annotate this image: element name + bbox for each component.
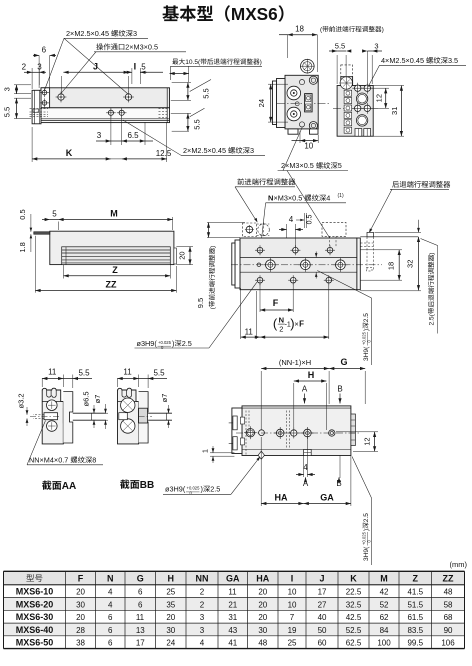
dim 5.5 and 3 top xyxy=(336,55,338,84)
arrows A B bottom xyxy=(303,479,309,488)
svg-text:1: 1 xyxy=(201,449,210,453)
svg-text:17: 17 xyxy=(318,588,327,597)
svg-text:M: M xyxy=(110,209,118,219)
svg-text:62.5: 62.5 xyxy=(346,639,362,648)
view A body right edge double line xyxy=(166,88,168,123)
dim 5.5 right upper xyxy=(172,82,191,84)
svg-text:12.5: 12.5 xyxy=(156,149,172,158)
svg-text:ø3H9(: ø3H9( xyxy=(137,339,158,348)
svg-text:35: 35 xyxy=(166,600,175,609)
view D mid hole row xyxy=(257,263,261,267)
svg-text:6: 6 xyxy=(108,626,113,635)
svg-text:21: 21 xyxy=(228,600,237,609)
view D front adjuster assembly dashed xyxy=(243,223,257,237)
view A bottom mount holes xyxy=(108,110,113,115)
svg-text:3: 3 xyxy=(250,146,254,155)
dim 2.5 rear adjuster xyxy=(375,231,422,233)
view E right rail stub xyxy=(351,414,356,446)
view D plate xyxy=(240,238,357,290)
svg-text:2.5(: 2.5( xyxy=(429,313,436,325)
dim Z xyxy=(63,265,65,279)
svg-text:MXS6-40: MXS6-40 xyxy=(16,625,54,635)
svg-text:4×M2.5×0.45: 4×M2.5×0.45 xyxy=(381,56,424,65)
dim 3 and 6.5 bottom xyxy=(110,116,112,145)
section BB body xyxy=(118,388,139,444)
arrows A B top xyxy=(302,385,308,394)
table header row xyxy=(26,574,42,582)
svg-text:ø7: ø7 xyxy=(160,394,169,403)
svg-text:8: 8 xyxy=(92,456,96,465)
svg-text:11: 11 xyxy=(136,613,145,622)
svg-text:11: 11 xyxy=(245,328,254,337)
rotated 3H9 label view E xyxy=(363,546,370,561)
view D left cap xyxy=(235,240,240,288)
svg-text:B: B xyxy=(337,385,342,394)
end view 1 feet xyxy=(288,129,298,134)
svg-text:99.5: 99.5 xyxy=(407,639,423,648)
dim F bottom xyxy=(259,284,261,312)
svg-text:20: 20 xyxy=(178,251,187,259)
section BB rail xyxy=(139,392,149,443)
dim 9.5 arrows xyxy=(207,222,245,224)
svg-text:NN: NN xyxy=(196,574,209,584)
svg-text:60: 60 xyxy=(318,639,327,648)
end view 2 body xyxy=(337,86,373,137)
svg-text:MXS6-10: MXS6-10 xyxy=(16,587,54,597)
dim 11 top BB xyxy=(117,378,119,387)
dim J xyxy=(63,71,128,73)
dim HA GA bottom xyxy=(260,437,262,506)
svg-text:20: 20 xyxy=(76,613,85,622)
svg-text:19: 19 xyxy=(288,626,297,635)
label with front adjuster xyxy=(320,26,384,34)
dim 3 left side xyxy=(14,84,31,86)
end view 2 bottom cutouts xyxy=(355,129,362,137)
dim 10 bottom xyxy=(299,131,301,143)
view C rod stub right xyxy=(174,248,177,264)
svg-text:Z: Z xyxy=(112,265,118,275)
dim 12 right view E xyxy=(336,431,378,433)
dim 0.5 top mid xyxy=(296,219,304,221)
label max 10.5 xyxy=(172,58,262,66)
svg-text:48: 48 xyxy=(444,588,453,597)
svg-text:(: ( xyxy=(273,316,278,331)
svg-text:4: 4 xyxy=(108,588,113,597)
svg-text:2: 2 xyxy=(279,324,283,333)
svg-text:30: 30 xyxy=(166,626,175,635)
svg-text:4: 4 xyxy=(326,194,330,203)
svg-text:27: 27 xyxy=(318,600,327,609)
svg-text:3: 3 xyxy=(200,613,205,622)
svg-text:×M3×0.5: ×M3×0.5 xyxy=(274,194,303,203)
svg-text:J: J xyxy=(93,61,98,71)
end view 1 roller top xyxy=(287,86,301,100)
svg-text:20: 20 xyxy=(166,613,175,622)
section BB port rect xyxy=(119,413,128,420)
svg-text:10: 10 xyxy=(288,600,297,609)
dim 11 bottom xyxy=(240,288,242,339)
svg-text:100: 100 xyxy=(377,639,391,648)
view D top hole row xyxy=(257,247,263,253)
svg-text:ZZ: ZZ xyxy=(106,280,117,290)
svg-text:18: 18 xyxy=(386,262,395,270)
svg-text:6: 6 xyxy=(108,613,113,622)
section AA rail xyxy=(63,392,73,443)
view D port block dashed right xyxy=(322,222,346,236)
dim row 2 3 J I 5 xyxy=(31,68,33,89)
caption BB xyxy=(120,480,154,491)
svg-text:0.5: 0.5 xyxy=(307,215,314,225)
svg-text:61.5: 61.5 xyxy=(407,613,423,622)
view E diamond marker xyxy=(258,451,264,459)
svg-text:F: F xyxy=(78,574,84,584)
dim 11 top AA xyxy=(41,378,43,387)
view E top plate line xyxy=(242,407,351,409)
caption AA xyxy=(42,481,76,492)
view D bottom hole row xyxy=(257,277,263,283)
svg-text:0.5: 0.5 xyxy=(18,209,27,219)
end view 2 adjuster circle hatched xyxy=(340,77,352,89)
svg-text:GA: GA xyxy=(226,574,240,584)
dim 6 top left xyxy=(38,55,40,88)
svg-text:2×M2.5×0.45: 2×M2.5×0.45 xyxy=(183,146,226,155)
svg-text:20: 20 xyxy=(258,588,267,597)
svg-text:10: 10 xyxy=(288,588,297,597)
svg-text:58: 58 xyxy=(444,600,453,609)
svg-text:6: 6 xyxy=(108,639,113,648)
svg-text:52: 52 xyxy=(380,600,389,609)
svg-text:3.5: 3.5 xyxy=(448,56,458,65)
svg-text:11: 11 xyxy=(228,588,237,597)
view A hidden adjuster dashes right end xyxy=(159,108,170,110)
view C rail stripes xyxy=(62,247,171,265)
end view 2 adjuster dashed top xyxy=(341,65,353,77)
dim 1 small left xyxy=(201,449,210,453)
dim 5.5 top AA xyxy=(72,375,74,389)
svg-text:32: 32 xyxy=(406,260,415,268)
svg-text:2: 2 xyxy=(200,588,205,597)
table header background xyxy=(4,571,465,585)
svg-text:Z: Z xyxy=(413,574,419,584)
view E centerline xyxy=(236,432,360,434)
svg-text:M: M xyxy=(380,574,388,584)
svg-text:1.8: 1.8 xyxy=(18,242,27,252)
dim 12 right xyxy=(371,87,389,89)
svg-text:F: F xyxy=(299,320,304,329)
svg-text:31: 31 xyxy=(390,107,399,115)
label 2xM3x0.5 depth5 shared xyxy=(281,161,342,170)
svg-text:9.5: 9.5 xyxy=(196,298,205,308)
svg-text:3H9(: 3H9( xyxy=(363,546,370,561)
svg-text:2.5: 2.5 xyxy=(363,313,370,322)
svg-text:MXS6: MXS6 xyxy=(231,4,278,24)
svg-text:NN×M4×0.7: NN×M4×0.7 xyxy=(29,456,68,465)
dim 1.8 left xyxy=(30,234,32,252)
svg-text:7: 7 xyxy=(290,613,295,622)
dim 4 top mid xyxy=(286,224,288,238)
svg-text:H: H xyxy=(308,370,315,380)
dim I 5 xyxy=(129,71,132,73)
svg-text:24: 24 xyxy=(166,639,175,648)
view E hidden lines xyxy=(245,411,247,456)
label 2xM2.5x0.45 top xyxy=(66,29,137,38)
end view 2 bore holes xyxy=(356,93,367,104)
svg-text:25: 25 xyxy=(166,588,175,597)
section AA screw xyxy=(44,413,58,420)
label 2.5 rotated with leader xyxy=(428,253,436,326)
svg-text:I: I xyxy=(134,62,137,72)
svg-text:17: 17 xyxy=(136,639,145,648)
view A slide body side view xyxy=(37,108,170,123)
svg-text:6: 6 xyxy=(42,46,47,55)
section BB clamp block xyxy=(139,408,148,423)
svg-text:13: 13 xyxy=(136,626,145,635)
view D right cap xyxy=(357,238,360,290)
dim K and 12.5 bottom xyxy=(31,127,33,162)
view D rear adjuster xyxy=(360,236,418,238)
dim phi6.5 xyxy=(92,412,97,414)
svg-text:6: 6 xyxy=(138,588,143,597)
view A left end plate xyxy=(32,90,41,124)
label NNxM4x0.7 xyxy=(29,456,96,465)
svg-text:BB: BB xyxy=(140,480,154,491)
svg-text:4: 4 xyxy=(108,600,113,609)
svg-text:2.5: 2.5 xyxy=(182,339,192,348)
end view 1 roller bottom xyxy=(287,107,301,121)
view A left plate holes xyxy=(42,90,47,95)
svg-text:2.5: 2.5 xyxy=(363,513,370,522)
svg-text:20: 20 xyxy=(258,613,267,622)
svg-text:2: 2 xyxy=(22,63,27,72)
end view 2 centerline xyxy=(333,107,378,109)
rotated 3H9 label view D xyxy=(363,346,370,361)
dim M top xyxy=(57,222,59,231)
table grid xyxy=(3,571,5,648)
svg-text:5: 5 xyxy=(52,210,57,219)
svg-text:I: I xyxy=(291,574,294,584)
dim 24 left xyxy=(268,83,288,85)
svg-text:3: 3 xyxy=(97,131,102,140)
svg-text:ø7: ø7 xyxy=(93,395,102,404)
svg-text:11: 11 xyxy=(123,368,132,377)
svg-text:41.5: 41.5 xyxy=(407,588,423,597)
label phi3H9 mid left xyxy=(137,339,158,348)
end view 1 table section strips xyxy=(277,79,286,128)
svg-text:10: 10 xyxy=(304,142,313,151)
table data rows xyxy=(16,587,54,597)
svg-text:GA: GA xyxy=(320,493,334,503)
3H9 groove depth arrows in plate xyxy=(315,252,317,258)
svg-text:30: 30 xyxy=(76,600,85,609)
svg-text:): ) xyxy=(382,27,384,34)
svg-text:3: 3 xyxy=(133,29,137,38)
view D rail lines xyxy=(240,257,357,259)
svg-text:HA: HA xyxy=(275,493,288,503)
dim H top xyxy=(293,383,295,428)
svg-text:3: 3 xyxy=(2,87,11,91)
label 2xM2.5x0.45 bottom xyxy=(183,146,254,155)
view E holes xyxy=(246,429,254,437)
dim phi3.2 xyxy=(17,393,26,408)
left rotated label xyxy=(209,246,217,310)
fraction N/2-1 xF xyxy=(279,315,284,324)
svg-text:(1): (1) xyxy=(338,193,344,199)
svg-text:83.5: 83.5 xyxy=(407,626,423,635)
svg-text:3H9(: 3H9( xyxy=(363,346,370,361)
label NxM3x0.5 xyxy=(268,194,273,203)
svg-text:): ) xyxy=(172,339,174,348)
dim 31 right xyxy=(373,85,404,87)
section AA bearing circles xyxy=(47,400,58,411)
svg-text:ø6.5: ø6.5 xyxy=(82,391,91,406)
svg-text:ZZ: ZZ xyxy=(443,574,454,584)
svg-text:MXS6-20: MXS6-20 xyxy=(16,599,54,609)
svg-text:(mm): (mm) xyxy=(450,560,468,569)
svg-text:AA: AA xyxy=(62,481,76,492)
svg-text:84: 84 xyxy=(380,626,389,635)
svg-text:G: G xyxy=(340,357,347,367)
svg-text:12: 12 xyxy=(363,437,372,445)
svg-text:10.5(: 10.5( xyxy=(185,59,201,66)
svg-text:3: 3 xyxy=(37,63,42,72)
section AA clamp block xyxy=(63,408,69,423)
end view 2 rail upper extension xyxy=(341,77,353,86)
svg-text:): ) xyxy=(363,529,370,531)
svg-text:4: 4 xyxy=(289,215,294,224)
svg-text:4: 4 xyxy=(303,463,308,472)
svg-text:K: K xyxy=(350,574,357,584)
svg-text:ø3.2: ø3.2 xyxy=(17,393,26,408)
svg-text:): ) xyxy=(209,246,216,248)
svg-text:31: 31 xyxy=(228,613,237,622)
view D centerline xyxy=(231,264,382,266)
view A table end white xyxy=(41,88,50,108)
svg-text:N: N xyxy=(279,315,284,324)
svg-text:51.5: 51.5 xyxy=(407,600,423,609)
svg-text:5: 5 xyxy=(141,63,146,72)
svg-text:18: 18 xyxy=(295,25,304,34)
dim 5.5 left side xyxy=(14,97,31,99)
svg-text:N: N xyxy=(107,574,114,584)
svg-text:-1: -1 xyxy=(285,321,291,328)
svg-text:2: 2 xyxy=(200,600,205,609)
view A table plate xyxy=(41,88,170,108)
end view 2 rail squares column xyxy=(344,90,352,96)
table shaded rows xyxy=(4,598,465,611)
svg-text:50: 50 xyxy=(318,626,327,635)
svg-text:25: 25 xyxy=(288,639,297,648)
dim phi7 BB xyxy=(167,412,171,414)
svg-text:11: 11 xyxy=(48,368,57,377)
svg-text:ø3H9(: ø3H9( xyxy=(165,485,186,494)
view C body xyxy=(50,231,174,264)
svg-text:22.5: 22.5 xyxy=(346,588,362,597)
end view 1 center clamp xyxy=(305,94,313,112)
view E bottom slot xyxy=(304,450,312,456)
svg-text:MXS6-50: MXS6-50 xyxy=(16,638,54,648)
svg-text:5: 5 xyxy=(338,161,342,170)
svg-text:90: 90 xyxy=(444,626,453,635)
svg-text:38: 38 xyxy=(76,639,85,648)
svg-text:62: 62 xyxy=(380,613,389,622)
title 基本型（MXS6） xyxy=(162,4,283,24)
svg-text:30: 30 xyxy=(258,626,267,635)
svg-text:2×M2.5×0.45: 2×M2.5×0.45 xyxy=(66,29,109,38)
svg-text:32.5: 32.5 xyxy=(346,600,362,609)
svg-text:MXS6-30: MXS6-30 xyxy=(16,612,54,622)
label 4xM2.5x0.45 xyxy=(381,56,458,65)
dim (N/2-1)xF xyxy=(328,284,330,339)
dim 18 32 right xyxy=(360,249,402,251)
svg-text:(NN-1)×H: (NN-1)×H xyxy=(279,358,311,367)
svg-text:42: 42 xyxy=(380,588,389,597)
svg-text:5.5: 5.5 xyxy=(202,88,211,98)
svg-text:K: K xyxy=(66,148,73,158)
svg-text:3: 3 xyxy=(374,42,378,51)
svg-text:): ) xyxy=(260,59,262,66)
svg-text:): ) xyxy=(201,485,203,494)
svg-text:40: 40 xyxy=(318,613,327,622)
svg-text:20: 20 xyxy=(258,600,267,609)
svg-text:5.5: 5.5 xyxy=(153,369,165,378)
end view 1 body xyxy=(285,75,318,129)
svg-text:48: 48 xyxy=(258,639,267,648)
svg-text:6.5: 6.5 xyxy=(127,131,139,140)
svg-text:2.5: 2.5 xyxy=(210,485,220,494)
section AA shaft xyxy=(73,412,106,414)
view E left cap xyxy=(232,408,242,454)
svg-text:106: 106 xyxy=(441,639,455,648)
label rear adjuster xyxy=(392,181,450,188)
section AA body xyxy=(42,388,63,444)
svg-text:H: H xyxy=(168,574,175,584)
dim 4 bottom xyxy=(303,456,305,478)
svg-text:2×M3×0.5: 2×M3×0.5 xyxy=(125,43,158,52)
svg-text:4: 4 xyxy=(200,639,205,648)
end view 1 mid small circle xyxy=(295,102,299,106)
svg-text:2×M3×0.5: 2×M3×0.5 xyxy=(281,161,314,170)
svg-text:): ) xyxy=(429,253,436,255)
dim 5.5 right lower xyxy=(171,112,191,114)
dim max10.5 extent xyxy=(170,73,190,75)
view A table holes xyxy=(58,94,64,100)
dim (NN-1)xH and G top xyxy=(260,371,262,430)
svg-text:3: 3 xyxy=(200,626,205,635)
end view 1 adjuster circle hatched xyxy=(301,59,315,73)
section BB piston bores xyxy=(121,398,135,412)
svg-text:20: 20 xyxy=(76,588,85,597)
svg-text:5.5: 5.5 xyxy=(335,42,345,51)
end view 1 centerline xyxy=(277,103,331,105)
svg-text:HA: HA xyxy=(256,574,269,584)
svg-text:12: 12 xyxy=(375,94,384,102)
svg-text:43: 43 xyxy=(228,626,237,635)
svg-text:41: 41 xyxy=(228,639,237,648)
view E body xyxy=(242,406,351,456)
view E port rects left xyxy=(233,416,237,430)
svg-text:28: 28 xyxy=(76,626,85,635)
dim 5.5 top BB xyxy=(147,375,149,389)
svg-text:×: × xyxy=(294,320,298,329)
dim ZZ xyxy=(34,236,36,293)
end view 1 corner bolts xyxy=(309,76,317,84)
svg-text:5.5: 5.5 xyxy=(78,369,90,378)
svg-text:G: G xyxy=(137,574,144,584)
svg-text:): ) xyxy=(363,329,370,331)
view A hidden features left xyxy=(30,108,49,110)
dim phi7 xyxy=(106,412,108,414)
label phi3H9 bottom xyxy=(165,485,186,494)
